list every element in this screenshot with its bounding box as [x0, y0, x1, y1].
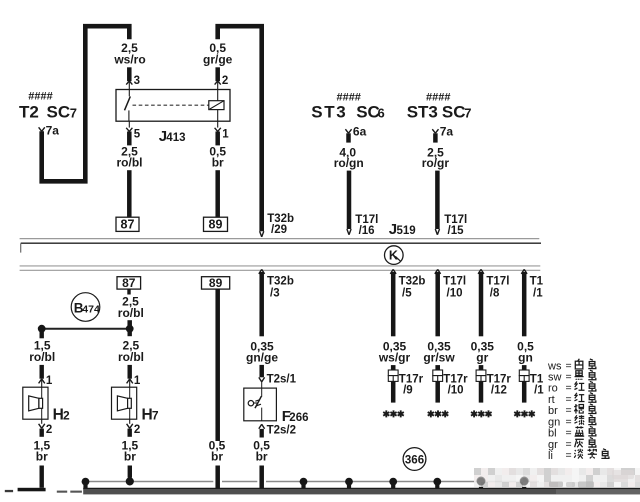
svg-text:T32b: T32b: [267, 275, 294, 287]
wire below connector (col 3): [479, 381, 484, 402]
inline connector T17r/10: [433, 365, 468, 397]
pin 7a arrow of connector T2: [39, 124, 60, 138]
horn H2 pin 2: [39, 419, 53, 436]
wire stub below H7 pin 2: [128, 429, 132, 437]
wire stub below H2 pin 2: [40, 429, 44, 437]
wire stub below T2s/2: [260, 429, 264, 438]
horn H7: [112, 387, 137, 419]
pin 6a arrow: [345, 125, 366, 139]
wire 7a to T17l/15: [435, 171, 440, 229]
wire value 0,35 gn/ge: [246, 339, 278, 364]
svg-text:T17l: T17l: [486, 275, 509, 287]
relay coil: [209, 90, 224, 122]
pin T17l/15 arrow into J519: [435, 214, 467, 237]
svg-text:1: 1: [222, 129, 229, 141]
svg-text:/1: /1: [534, 385, 544, 397]
horn H2: [23, 387, 48, 419]
wire value 0,5 br: [209, 145, 226, 170]
decorative: none (watermark on ground bar right): [556, 489, 640, 494]
control unit J519 top border: [21, 243, 541, 252]
inline connector T17r/12: [476, 365, 511, 397]
svg-text:SC: SC: [356, 103, 380, 122]
svg-text:ws: ws: [547, 360, 562, 372]
svg-text:=: =: [566, 393, 572, 405]
wire stub below pin 5: [127, 132, 132, 146]
pin T17l/10 arrow from J519 (col 2): [435, 269, 466, 299]
switch F266 designation: [282, 408, 309, 425]
control unit J519 designation: [389, 221, 416, 238]
svg-text:519: 519: [397, 225, 416, 237]
svg-text:87: 87: [121, 218, 135, 232]
relay designation J413: [159, 128, 186, 145]
continuation mark *** (col 3): [471, 410, 492, 417]
svg-text:/3: /3: [270, 288, 280, 300]
wire 87 down to junction: [127, 320, 132, 329]
bus upper gray rail: [20, 238, 540, 240]
wire stub below box 87: [127, 289, 130, 294]
svg-text:gn: gn: [518, 350, 533, 364]
cropped dashes on ground path: [57, 491, 82, 493]
svg-text:/12: /12: [491, 385, 507, 397]
connector ST3 SC7 label: [407, 103, 472, 122]
wire stub into relay pin 3: [127, 67, 132, 81]
svg-text:T17r: T17r: [399, 373, 424, 385]
svg-text:li: li: [548, 450, 553, 462]
svg-text:T1: T1: [530, 373, 544, 385]
wire T32b/3 to F266: [259, 272, 264, 336]
svg-text:SC: SC: [442, 103, 466, 122]
pin T32b/29 arrow into J519: [260, 213, 294, 237]
svg-text:br: br: [211, 449, 223, 463]
wire value 4,0 ro/gn: [334, 145, 364, 170]
svg-text:87: 87: [122, 276, 136, 290]
svg-text:gr/ge: gr/ge: [203, 52, 233, 66]
sensor/splice label B474: [71, 293, 100, 322]
svg-text:ST3: ST3: [311, 103, 347, 122]
svg-text:br: br: [212, 155, 224, 169]
svg-text:/10: /10: [448, 385, 464, 397]
svg-text:T1: T1: [530, 275, 544, 287]
svg-text:gn/ge: gn/ge: [246, 350, 278, 364]
wire stub below 7a: [433, 133, 438, 142]
wire value 2,5 ro/bl: [117, 145, 143, 170]
wire below connector (col 4): [522, 381, 527, 402]
continuation mark *** (col 2): [428, 410, 449, 417]
svg-text:ro/bl: ro/bl: [117, 155, 143, 169]
wire value 0,35 ws/gr: [378, 339, 411, 364]
svg-text:ro/bl: ro/bl: [118, 350, 144, 364]
wire F266 to ground bar: [259, 466, 264, 489]
ground junction dots on rail: [82, 477, 528, 489]
junction branch wire (horizontal): [42, 328, 130, 330]
svg-text:=: =: [566, 360, 572, 372]
inline connector T17r/9: [388, 365, 423, 397]
svg-text:T17r: T17r: [487, 373, 512, 385]
relay J413 body: [116, 90, 230, 122]
svg-text:7: 7: [464, 106, 471, 121]
pin T2s/1 arrow: [259, 373, 297, 385]
relay pin 1: [215, 121, 230, 140]
wire value 1,5 ro/bl: [29, 338, 55, 364]
pin T1/1 arrow from J519 (col 4): [521, 269, 543, 299]
svg-text:gr/sw: gr/sw: [423, 350, 455, 364]
svg-text:474: 474: [82, 303, 100, 315]
wire stub below pin 1: [215, 132, 220, 146]
svg-text:gr: gr: [548, 439, 558, 451]
wire pin5 to terminal 87: [127, 170, 132, 217]
wire value 0,5 gn: [517, 339, 534, 364]
svg-text:/16: /16: [359, 225, 375, 237]
wire from T2/7a to relay pin 3 (hook): [42, 26, 130, 181]
wire value 2,5 ro/bl (H7): [118, 338, 144, 364]
svg-text:=: =: [566, 405, 572, 417]
wire value 0,5 br (89): [209, 438, 226, 463]
svg-text:5: 5: [134, 129, 141, 141]
svg-text:bl: bl: [548, 428, 557, 440]
wire value 1,5 br (H7): [122, 438, 139, 463]
continuation mark *** (col 4): [514, 410, 535, 417]
svg-text:####: ####: [28, 91, 52, 103]
svg-text:ro/bl: ro/bl: [118, 306, 144, 320]
svg-text:rt: rt: [548, 394, 555, 406]
pin T17l/8 arrow from J519 (col 3): [478, 269, 509, 299]
relay pin 2: [215, 75, 229, 89]
wire gn/ge to T2s/1: [259, 365, 264, 377]
connector ST3 SC6 label: [311, 103, 384, 122]
svg-text:/29: /29: [271, 224, 287, 236]
svg-text:89: 89: [209, 218, 223, 232]
decorative: none (watermark mosaic patch): [474, 468, 640, 488]
junction dot right: [126, 325, 134, 336]
pin T17l/16 arrow into J519: [347, 214, 378, 237]
svg-text:/15: /15: [448, 225, 465, 237]
wire 6a to T17l/16: [347, 171, 352, 229]
svg-text:T17l: T17l: [443, 275, 466, 287]
terminal box 89 (upper): [204, 217, 228, 232]
svg-text:ST3: ST3: [407, 103, 438, 122]
terminal box 87 (upper): [116, 217, 139, 232]
horn H7 designation: [142, 406, 159, 423]
terminal box 89 (lower): [202, 276, 230, 290]
ground bar (earth): [83, 488, 640, 494]
colour code legend: [547, 359, 609, 462]
wire 0,35 ws/gr (col 1): [391, 272, 396, 336]
horn H2 designation: [53, 406, 70, 423]
svg-text:2: 2: [63, 408, 70, 422]
svg-text:T2s/2: T2s/2: [267, 425, 296, 437]
svg-text:=: =: [566, 416, 572, 428]
svg-text:br: br: [36, 449, 48, 463]
connector T2 SC7 label: [19, 103, 77, 122]
wire value 2,5 ro/bl (lower): [118, 295, 144, 321]
svg-text:=: =: [566, 427, 572, 439]
svg-text:T2s/1: T2s/1: [267, 373, 297, 385]
svg-text:7: 7: [70, 106, 77, 121]
svg-text:####: ####: [426, 91, 450, 103]
wire value 0,35 gr: [471, 339, 495, 364]
wire below connector (col 2): [435, 381, 440, 402]
terminal box 87 (lower): [117, 276, 141, 290]
svg-text:br: br: [548, 405, 558, 417]
svg-text:3: 3: [134, 75, 140, 87]
svg-text:366: 366: [405, 454, 424, 466]
svg-text:gn: gn: [548, 416, 560, 428]
connection point K: [385, 246, 404, 265]
svg-text:sw: sw: [548, 372, 562, 384]
inline connector T1/1: [519, 365, 544, 397]
svg-text:gr: gr: [476, 350, 488, 364]
svg-text:ro/bl: ro/bl: [29, 350, 55, 364]
svg-text:T17r: T17r: [443, 373, 468, 385]
svg-text:/5: /5: [402, 288, 412, 300]
svg-text:/1: /1: [533, 288, 543, 300]
svg-text:T2: T2: [19, 103, 39, 122]
svg-text:=: =: [566, 450, 572, 462]
svg-text:=: =: [566, 371, 572, 383]
wire value 0,5 gr/ge: [203, 41, 233, 66]
svg-text:1: 1: [46, 375, 53, 387]
wire value 1,5 br (H2): [33, 438, 50, 463]
ground point 366 label: [403, 448, 426, 471]
wire H7 to ground rail: [128, 466, 132, 478]
wire below connector (col 1): [391, 381, 396, 402]
pin T32b/5 arrow from J519 (col 1): [390, 269, 425, 299]
continuation mark *** (col 1): [383, 410, 404, 417]
relay actuation dashed line: [133, 104, 209, 106]
svg-text:413: 413: [166, 132, 185, 144]
svg-text:SC: SC: [47, 103, 71, 122]
svg-text:=: =: [566, 382, 572, 394]
wire from relay pin 2 over to J519 T32b/29 (hook): [218, 26, 262, 231]
wire stub into relay pin 2: [215, 67, 220, 81]
svg-text:T32b: T32b: [399, 275, 426, 287]
svg-text:br: br: [256, 449, 268, 463]
svg-text:K: K: [389, 249, 398, 263]
svg-text:ro/gn: ro/gn: [334, 156, 364, 170]
relay pin 3: [126, 75, 140, 89]
wire value 2,5 ws/ro: [113, 41, 145, 66]
wire value 0,5 br (F266): [253, 438, 270, 463]
wire 0,35 gr/sw (col 2): [435, 272, 440, 336]
horn H7 pin 1: [127, 375, 141, 387]
svg-text:7a: 7a: [46, 124, 60, 138]
svg-text:2: 2: [46, 424, 52, 436]
svg-text:/9: /9: [403, 385, 413, 397]
svg-text:2: 2: [134, 424, 140, 436]
svg-text:ro/gr: ro/gr: [422, 156, 450, 170]
relay pin 5: [126, 121, 141, 140]
pin T32b/3 arrow from J519: [259, 269, 294, 299]
svg-text:/10: /10: [447, 288, 463, 300]
horn H7 pin 2: [127, 419, 141, 436]
pin T2s/2 arrow: [259, 424, 296, 436]
wire value 2,5 ro/gr: [422, 145, 450, 170]
svg-text:89: 89: [209, 276, 223, 290]
wire pin1 to terminal 89: [215, 170, 220, 217]
svg-text:/8: /8: [490, 288, 500, 300]
svg-text:ro: ro: [548, 383, 558, 395]
relay switch contact: [125, 90, 131, 122]
svg-text:6a: 6a: [353, 125, 367, 139]
bus lower double gray rails: [20, 266, 541, 270]
junction dot left: [38, 325, 46, 339]
wire stub below 6a: [346, 133, 351, 142]
wire 89 to ground bar: [215, 466, 220, 489]
wire 0,5 gn (col 4): [522, 272, 527, 336]
horn H2 pin 1: [39, 375, 53, 387]
svg-text:6: 6: [378, 106, 385, 121]
svg-text:####: ####: [336, 91, 360, 103]
svg-text:br: br: [124, 449, 136, 463]
wire junction to horn H7: [128, 365, 132, 379]
svg-text:ws/gr: ws/gr: [378, 350, 411, 364]
pin 7a arrow (ST3): [432, 125, 453, 139]
ground rail wire: [86, 481, 540, 483]
svg-text:ws/ro: ws/ro: [113, 52, 145, 66]
svg-text:1: 1: [134, 375, 141, 387]
wire value 0,35 gr/sw: [423, 339, 455, 364]
svg-text:7: 7: [152, 408, 159, 422]
wire H2 to ground (bends left, cropped): [5, 466, 46, 493]
wire 89 down: [215, 289, 220, 441]
wire junction to horn H2: [40, 365, 44, 379]
svg-text:266: 266: [289, 412, 308, 424]
svg-text:7a: 7a: [440, 125, 454, 139]
svg-text:2: 2: [222, 75, 228, 87]
wire 0,35 gr (col 3): [479, 272, 484, 336]
svg-text:=: =: [566, 438, 572, 450]
switch F266: [244, 382, 277, 421]
